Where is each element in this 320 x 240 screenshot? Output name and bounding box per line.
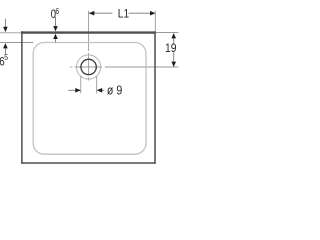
dimension diameter 9 right arrow	[97, 89, 105, 91]
dimension L1 label	[118, 8, 129, 21]
dimension 19 line upper part with arrow	[173, 34, 175, 44]
basin inner rounded rectangle	[33, 43, 146, 155]
tray outer outline right edge	[154, 31, 156, 164]
dimension L1 line right part with arrow	[129, 12, 155, 14]
dimension 0_6 lower arrow	[55, 36, 57, 42]
drain horizontal centerline and 19 extension line	[70, 66, 178, 68]
drain vertical centerline and L1 extension line	[88, 11, 90, 81]
dimension 6_5 upper arrow	[4, 19, 6, 28]
dimension 0_6 upper arrow	[55, 17, 57, 27]
drain diameter extension line left	[80, 76, 82, 94]
dimension 19 label	[165, 43, 177, 56]
dimension L1 line left part with arrow	[89, 12, 113, 14]
top edge extension line to right	[156, 32, 179, 34]
svg-text:ø 9: ø 9	[107, 84, 122, 98]
drain outer circle	[77, 55, 101, 79]
drain diameter extension line right	[96, 76, 98, 94]
svg-text:6: 6	[55, 6, 59, 16]
tray outer outline top edge	[21, 31, 156, 33]
dimension diameter 9 label	[107, 84, 122, 98]
dimension 6_5 label	[0, 56, 5, 69]
svg-text:19: 19	[165, 43, 177, 56]
svg-text:L1: L1	[118, 8, 129, 21]
dimension diameter 9 left arrow	[68, 89, 80, 91]
dimension 0_6 label	[51, 8, 56, 21]
top edge extension line to left	[0, 32, 21, 34]
drain inner circle	[81, 59, 96, 74]
basin top extension line to left	[0, 42, 34, 44]
tray outer outline bottom edge	[21, 162, 156, 164]
dimension 6_5 lower arrow	[4, 48, 6, 55]
right edge extension line up	[154, 11, 156, 31]
dimension 19 line lower part with arrow	[173, 52, 175, 66]
svg-text:5: 5	[4, 53, 8, 63]
tray outer outline left edge	[21, 31, 23, 164]
